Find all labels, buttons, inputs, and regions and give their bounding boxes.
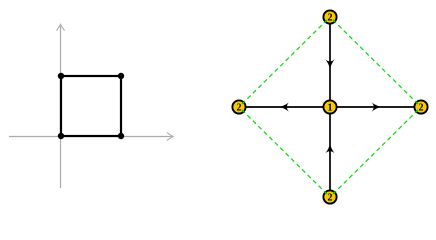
svg-text:2: 2	[328, 192, 333, 203]
arrowhead left	[279, 102, 289, 111]
black edge center to left	[239, 106, 330, 108]
black edge bottom to center	[329, 107, 331, 197]
node 2 top circle	[323, 10, 336, 23]
arrowhead up	[325, 143, 334, 153]
vertex dot bottom-right	[118, 133, 124, 139]
svg-text:2: 2	[237, 102, 242, 113]
arrowhead down	[325, 59, 334, 69]
x-axis	[9, 133, 173, 141]
vertex dot top-right	[118, 73, 124, 79]
vertex dot top-left	[58, 73, 64, 79]
green dashed edge top to right	[333, 20, 418, 104]
svg-text:2: 2	[328, 12, 333, 23]
black edge top to center	[329, 17, 331, 107]
arrowhead right	[372, 102, 382, 111]
square	[61, 76, 121, 136]
node 1 center circle	[323, 100, 336, 113]
green dashed edge top to left	[242, 20, 327, 104]
node 2 bottom circle	[323, 190, 336, 203]
node 2 right circle	[414, 100, 427, 113]
black edge center to right	[330, 106, 421, 108]
svg-text:2: 2	[419, 102, 424, 113]
node 2 left circle	[232, 100, 245, 113]
vertex dot bottom-left	[58, 133, 64, 139]
svg-text:1: 1	[328, 102, 333, 113]
green dashed edge bottom to right	[333, 110, 418, 194]
green dashed edge bottom to left	[242, 110, 327, 194]
y-axis	[57, 24, 65, 188]
